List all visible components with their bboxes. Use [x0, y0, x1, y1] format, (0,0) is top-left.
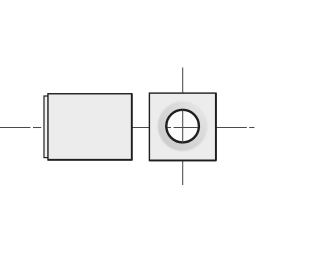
- wire crosshair-vertical: [182, 110, 184, 143]
- wire centerline-vertical-bottom: [182, 161, 184, 185]
- wire centerline-right: [216, 127, 254, 129]
- wire centerline-left: [0, 127, 41, 129]
- node square: [149, 93, 216, 160]
- node chamfer-ring: [158, 101, 208, 151]
- wire crosshair-horizontal: [167, 127, 197, 129]
- wire centerline-middle: [132, 127, 150, 129]
- node body: [48, 94, 132, 161]
- node hole: [166, 110, 199, 143]
- wire centerline-vertical-top: [182, 68, 184, 94]
- node flange: [44, 96, 49, 158]
